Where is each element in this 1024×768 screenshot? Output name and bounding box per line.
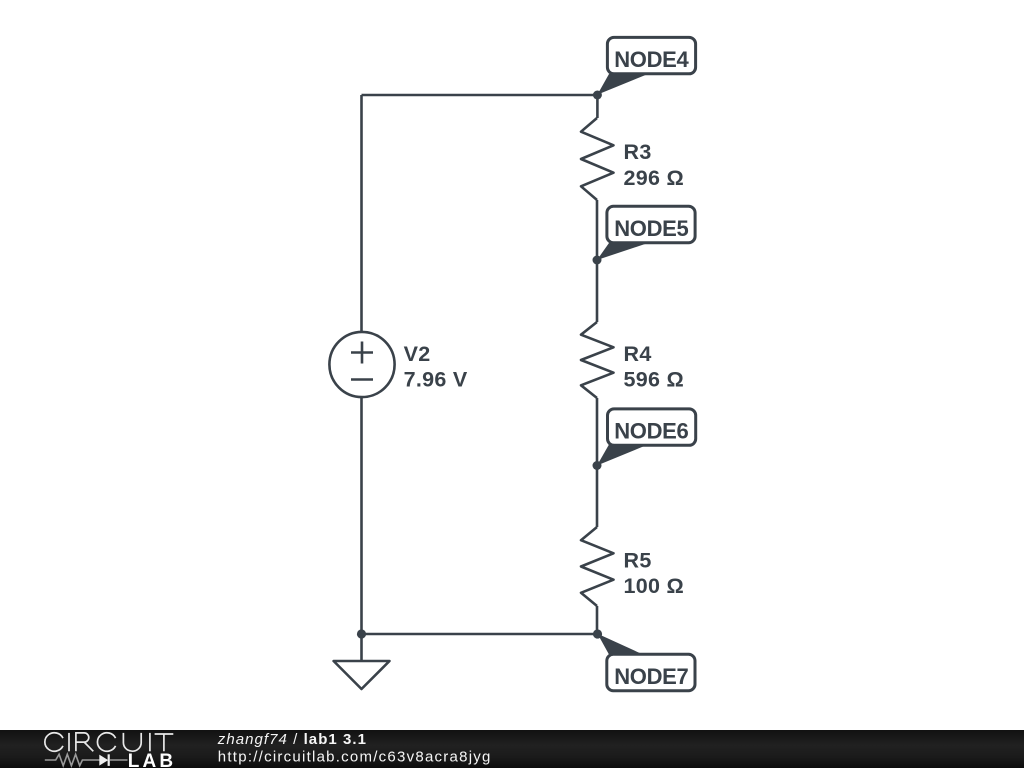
node D junction dot bottom right (593, 629, 602, 638)
svg-text:7.96 V: 7.96 V (404, 368, 468, 392)
svg-text:LAB: LAB (128, 751, 176, 768)
node C junction dot NODE6 (593, 461, 602, 470)
svg-text:V2: V2 (404, 342, 431, 366)
wire R5 to bottom (596, 606, 599, 634)
svg-text:296 Ω: 296 Ω (624, 166, 685, 190)
svg-text:NODE7: NODE7 (614, 664, 688, 689)
wire left lower vertical (360, 397, 363, 661)
callout tail NODE5 (597, 243, 648, 260)
svg-text:NODE5: NODE5 (614, 216, 688, 241)
wire R3 to node5 (596, 200, 599, 322)
node label box NODE5 (607, 206, 695, 242)
resistor R5 (581, 527, 614, 606)
node B junction dot NODE5 (593, 256, 602, 265)
callout tail NODE7 (598, 634, 644, 655)
V2 minus sign (351, 378, 373, 381)
svg-text:NODE6: NODE6 (614, 418, 688, 443)
wire left upper vertical (360, 95, 363, 332)
node label box NODE6 (608, 409, 696, 445)
svg-text:http://circuitlab.com/c63v8acr: http://circuitlab.com/c63v8acra8jyg (218, 749, 492, 766)
V2 plus sign (351, 342, 373, 364)
svg-text:100 Ω: 100 Ω (624, 574, 685, 598)
logo CIRCUIT text (45, 733, 173, 752)
svg-text:zhangf74 / lab1 3.1: zhangf74 / lab1 3.1 (217, 731, 367, 748)
callout tail NODE6 (597, 445, 648, 466)
ground (334, 661, 390, 689)
logo wire with resistor and diode (45, 754, 128, 765)
wire right top stub (596, 95, 599, 118)
node E junction dot bottom left (357, 629, 366, 638)
svg-text:R3: R3 (624, 140, 652, 164)
logo diode (99, 755, 108, 766)
svg-text:R4: R4 (624, 342, 652, 366)
wire R4 to node6 (596, 398, 599, 527)
resistor R3 (581, 118, 614, 200)
svg-text:NODE4: NODE4 (614, 47, 689, 72)
node A junction dot top (593, 91, 602, 100)
callout tail NODE4 (597, 74, 648, 95)
resistor R4 (581, 322, 614, 398)
wire top horizontal (362, 94, 598, 97)
svg-text:596 Ω: 596 Ω (624, 368, 685, 392)
svg-text:R5: R5 (624, 548, 652, 572)
node label box NODE4 (607, 37, 695, 73)
wire bottom horizontal (362, 633, 598, 636)
voltage source V2 circle (329, 332, 394, 397)
footer bar (0, 730, 1024, 768)
node label box NODE7 (607, 654, 695, 690)
